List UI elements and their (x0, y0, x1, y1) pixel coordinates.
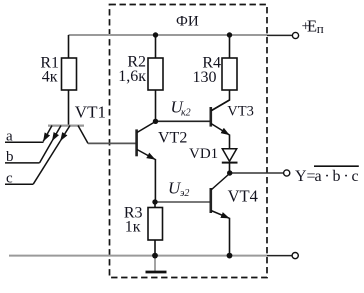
svg-text:a: a (6, 128, 13, 144)
svg-text:VT4: VT4 (228, 186, 258, 205)
svg-text:ФИ: ФИ (176, 14, 199, 30)
svg-text:130: 130 (193, 69, 217, 86)
svg-text:VT3: VT3 (227, 104, 254, 120)
svg-text:VD1: VD1 (189, 146, 218, 162)
svg-text:п: п (317, 21, 324, 36)
svg-text:Y=: Y= (295, 168, 316, 185)
svg-text:к2: к2 (181, 107, 191, 118)
svg-text:E: E (307, 16, 317, 35)
svg-text:1к: 1к (125, 218, 141, 235)
svg-text:a·b·c: a·b·c (315, 168, 362, 185)
svg-text:4к: 4к (42, 69, 58, 86)
svg-text:c: c (6, 171, 13, 187)
svg-text:1,6к: 1,6к (118, 68, 146, 85)
svg-text:b: b (6, 149, 14, 165)
svg-text:VT2: VT2 (158, 129, 187, 146)
svg-text:э2: э2 (180, 188, 189, 199)
svg-text:VT1: VT1 (75, 102, 106, 121)
